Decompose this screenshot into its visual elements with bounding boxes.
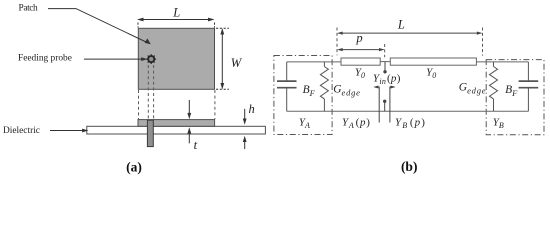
probe (side view) [147, 120, 153, 146]
wire: line 2 to YB network [476, 61, 528, 63]
svg-text:YB(p): YB(p) [395, 116, 426, 129]
resistor Gedge (left) [320, 62, 328, 111]
dimension p [337, 44, 385, 57]
svg-text:L: L [397, 18, 405, 32]
svg-text:t: t [194, 138, 198, 152]
svg-text:YA(p): YA(p) [342, 116, 371, 129]
feeding probe (via symbol) [146, 54, 156, 64]
dimension L (a) [137, 18, 215, 28]
svg-text:Dielectric: Dielectric [3, 126, 40, 136]
svg-text:Patch: Patch [19, 4, 39, 14]
dimension t [187, 100, 191, 143]
capacitor BF (left) [277, 62, 297, 111]
feed tap node (lower) [383, 100, 386, 112]
dashed box YA [274, 56, 332, 135]
svg-text:(a): (a) [126, 160, 142, 175]
wire: YA top wire to line 1 [287, 61, 341, 63]
wire: bottom bus [287, 110, 529, 112]
svg-text:Yin(p): Yin(p) [373, 73, 401, 87]
svg-text:W: W [231, 56, 243, 70]
feed tap node (upper) [383, 62, 386, 74]
dimension h [243, 109, 247, 149]
svg-text:Feeding probe: Feeding probe [18, 53, 72, 63]
dashed box YB [486, 60, 544, 135]
resistor Gedge (right) [490, 62, 498, 111]
svg-text:(b): (b) [401, 159, 418, 174]
leader arrow to feeding probe [84, 57, 148, 61]
leader arrow to dielectric [50, 129, 89, 133]
leader arrow to patch [48, 9, 151, 45]
transmission line 2 [390, 58, 476, 65]
YB(p) look-right arrow [390, 86, 396, 123]
dielectric slab (side view) [87, 126, 266, 134]
transmission line 1 [341, 58, 380, 65]
patch (top view) [138, 28, 214, 89]
dimension L (b) [337, 28, 483, 56]
svg-text:p: p [355, 31, 362, 45]
wire: gap between lines [380, 61, 390, 63]
patch (side view) [138, 120, 215, 127]
svg-text:h: h [249, 102, 255, 116]
YA(p) look-left arrow [373, 86, 379, 123]
dimension W [216, 28, 229, 90]
svg-text:L: L [172, 6, 180, 20]
capacitor BF (right) [519, 62, 539, 111]
projection dashed lines (top view to side view) [139, 65, 215, 119]
